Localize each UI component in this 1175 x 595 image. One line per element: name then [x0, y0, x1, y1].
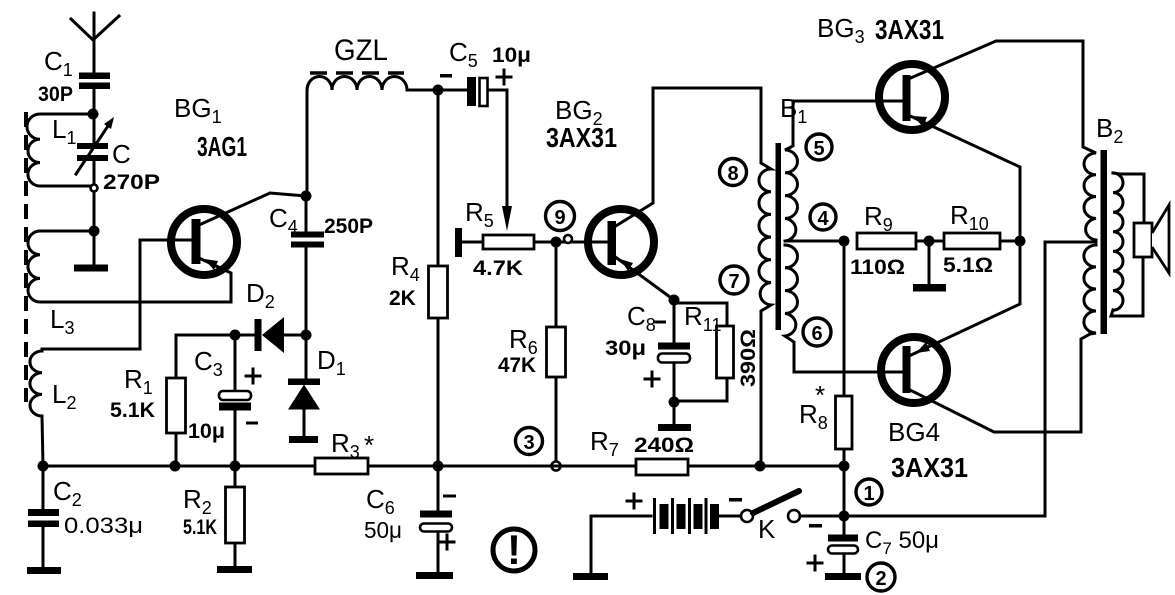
node 1	[856, 479, 882, 505]
svg-text:BG4: BG4	[888, 417, 940, 447]
ground below D1	[289, 436, 318, 443]
wire: B1 center tap (4) to R9	[786, 240, 844, 243]
node: R4/C6 rail junction	[433, 461, 444, 472]
ground tap bar	[74, 231, 108, 272]
capacitor C6 50u	[364, 466, 456, 572]
diode D2	[235, 278, 306, 353]
coil L1	[27, 114, 93, 186]
capacitor C4 250P	[269, 196, 373, 335]
svg-text:10μ: 10μ	[492, 44, 531, 67]
resistor R9 110ohm	[850, 201, 944, 279]
node: BG2 emitter / C8 / R11 junction	[669, 295, 680, 306]
svg-text:2: 2	[875, 568, 886, 590]
transformer B2 core	[1101, 150, 1108, 334]
svg-text:3AX31: 3AX31	[546, 122, 617, 153]
svg-text:9: 9	[554, 207, 565, 229]
svg-text:0.033μ: 0.033μ	[64, 513, 143, 538]
wire: B2 secondary to speaker	[1111, 173, 1144, 316]
resistor R11 390ohm	[674, 301, 760, 401]
node: antenna / L1 top junction	[88, 109, 99, 120]
node: GZL / C5 / R4 junction	[433, 85, 444, 96]
node 2	[867, 563, 895, 591]
svg-text:240Ω: 240Ω	[634, 434, 694, 457]
ground below C7	[825, 573, 861, 580]
resistor R10 5.1ohm	[943, 200, 1020, 277]
capacitor C5 10u	[440, 37, 531, 106]
ground between R9 and R10	[913, 241, 946, 292]
wire: B2 center tap to battery rail	[844, 242, 1096, 516]
resistor R1 5.1K	[110, 335, 235, 466]
node 4	[810, 204, 836, 230]
svg-text:C: C	[112, 139, 131, 169]
diode D1	[288, 335, 346, 436]
svg-text:250P: 250P	[324, 215, 373, 238]
svg-text:30P: 30P	[38, 83, 73, 106]
resistor R3 (star)	[315, 428, 374, 474]
svg-text:270P: 270P	[103, 171, 160, 194]
ground below R2	[217, 566, 252, 573]
svg-text:8: 8	[727, 163, 738, 185]
wire	[93, 192, 96, 231]
ground below C6	[416, 572, 453, 579]
svg-text:110Ω: 110Ω	[850, 256, 905, 279]
node: C3/R2 rail junction	[230, 461, 241, 472]
node: C7 / negative rail junction	[839, 511, 850, 522]
svg-text:6: 6	[811, 323, 822, 345]
B2 secondary winding	[1113, 173, 1123, 310]
svg-text:5: 5	[813, 138, 824, 160]
svg-text:5.1K: 5.1K	[110, 399, 155, 422]
B1 secondary lower winding (4-6)	[785, 245, 902, 372]
node: C4 / collector junction	[301, 191, 312, 202]
transistor BG3 3AX31	[793, 13, 1083, 356]
svg-text:390Ω: 390Ω	[737, 329, 760, 387]
node: L2/C2 rail junction	[38, 461, 49, 472]
B1 secondary upper winding (5-4)	[785, 101, 798, 241]
node: L1 bottom (open)	[91, 185, 98, 192]
node: B1 primary bottom rail junction	[755, 461, 766, 472]
switch K	[741, 491, 800, 544]
antenna	[71, 13, 119, 72]
ground below C2	[27, 567, 61, 574]
svg-text:47K: 47K	[498, 354, 536, 377]
coil L2	[30, 240, 191, 466]
svg-text:*: *	[815, 380, 825, 410]
resistor R6 47K	[498, 248, 566, 461]
ground below battery plus lead	[573, 516, 608, 580]
capacitor C2 0.033u	[28, 466, 143, 567]
node 8	[720, 159, 747, 186]
B2 primary lower winding	[1084, 245, 1096, 334]
svg-text:4: 4	[817, 208, 829, 230]
resistor R4 2K	[389, 90, 448, 466]
svg-text:K: K	[758, 514, 776, 544]
capacitor C1	[38, 46, 110, 114]
capacitor C8 30u	[605, 300, 690, 402]
svg-text:GZL: GZL	[334, 34, 388, 67]
svg-text:3AG1: 3AG1	[197, 131, 247, 162]
svg-text:2K: 2K	[389, 287, 416, 310]
wire: C5 to R5 wiper arrow	[488, 90, 512, 231]
ground below C8	[658, 402, 691, 431]
variable capacitor C 270P	[76, 114, 160, 194]
transistor BG2 3AX31	[546, 88, 761, 300]
svg-text:50μ: 50μ	[364, 517, 402, 543]
coil L3	[28, 231, 231, 338]
B1 primary winding (8-7)	[759, 88, 807, 466]
node: C8 bottom / R11 bottom	[669, 397, 680, 408]
svg-text:10μ: 10μ	[188, 420, 225, 443]
resistor R7 240ohm	[590, 426, 694, 475]
node: L3 top junction	[89, 226, 100, 237]
speaker	[1134, 205, 1169, 273]
battery	[591, 494, 742, 534]
svg-text:30μ: 30μ	[605, 337, 646, 360]
B2 primary upper winding	[1083, 41, 1123, 240]
svg-text:4.7K: 4.7K	[473, 257, 523, 280]
resistor R2 5.1K	[183, 466, 245, 566]
node: R9/R10 ground junction	[924, 236, 935, 247]
wire: rail to switch node	[843, 466, 846, 516]
svg-text:*: *	[364, 430, 374, 460]
wire: main bottom rail	[43, 465, 844, 468]
node: R1 rail junction	[170, 461, 181, 472]
node 3 (open) on rail	[516, 428, 561, 471]
wire: switch to C7 node	[800, 515, 844, 518]
node: emitters / R10 right junction	[1015, 236, 1026, 247]
capacitor C7 50u	[808, 516, 939, 573]
svg-text:3AX31: 3AX31	[875, 14, 944, 45]
transistor BG4 3AX31	[881, 334, 1090, 483]
svg-text:3AX31: 3AX31	[891, 452, 968, 483]
node 5	[806, 134, 832, 160]
svg-text:5.1Ω: 5.1Ω	[943, 254, 993, 277]
transistor BG1 3AG1	[171, 93, 306, 302]
node: R8 rail junction	[839, 461, 850, 472]
svg-text:C7 50μ: C7 50μ	[865, 527, 939, 558]
transformer B1 core	[776, 143, 782, 330]
node 6	[803, 318, 831, 346]
node 7	[720, 266, 748, 294]
svg-text:1: 1	[863, 483, 874, 505]
node: D2/D1/C4 junction	[301, 330, 312, 341]
ferrite rod (dashed)	[24, 112, 28, 402]
resistor R5 4.7K (pot)	[455, 197, 607, 280]
circled ! mark	[493, 526, 535, 573]
svg-text:!: !	[507, 526, 521, 573]
node: C3/D2/R1 junction	[230, 330, 241, 341]
svg-text:7: 7	[728, 271, 739, 293]
coil GZL	[307, 34, 468, 196]
svg-text:3: 3	[523, 432, 534, 454]
capacitor C3 10u	[188, 335, 260, 466]
node 9	[546, 202, 575, 248]
node: R9 left junction	[839, 236, 850, 247]
resistor R8 (star)	[799, 241, 852, 466]
svg-text:5.1K: 5.1K	[183, 516, 217, 539]
